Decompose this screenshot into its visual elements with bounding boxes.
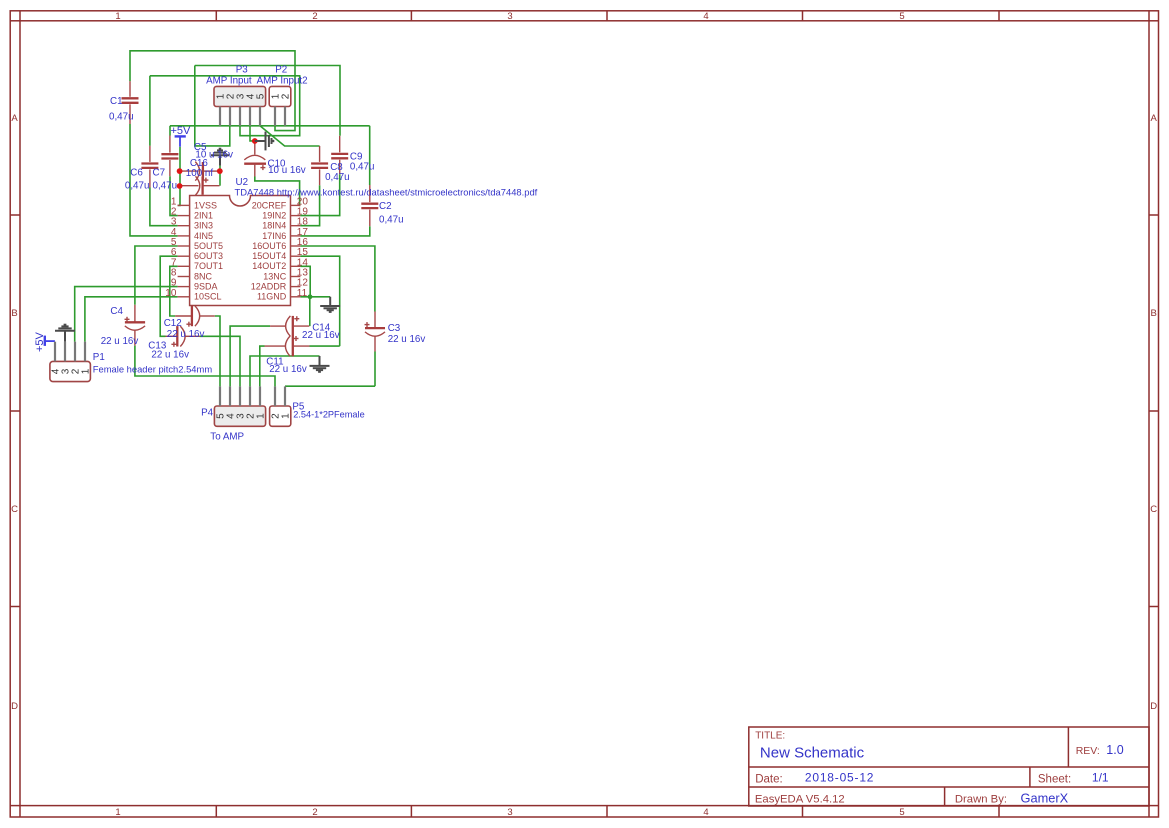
svg-text:B: B bbox=[11, 308, 17, 319]
U2 right pin stubs bbox=[291, 205, 301, 296]
titleblock group bbox=[749, 727, 1149, 806]
svg-text:2: 2 bbox=[281, 93, 292, 99]
capacitor C14 polarized horizontal bbox=[270, 316, 309, 336]
junction dot C5 left bbox=[177, 183, 183, 189]
wire U2 pin7 OUT1 to C12 left bbox=[170, 266, 178, 316]
svg-text:100 nf: 100 nf bbox=[186, 168, 214, 179]
svg-text:3: 3 bbox=[507, 11, 512, 22]
svg-text:15OUT4: 15OUT4 bbox=[252, 251, 286, 261]
svg-text:EasyEDA V5.4.12: EasyEDA V5.4.12 bbox=[755, 794, 845, 806]
svg-text:2: 2 bbox=[312, 807, 317, 818]
svg-text:11: 11 bbox=[297, 288, 308, 299]
wire net386 P5 pin1 to C3 bbox=[285, 385, 375, 387]
svg-text:TDA7448 http://www.kontest.ru/: TDA7448 http://www.kontest.ru/datasheet/… bbox=[235, 186, 538, 197]
left ruler tick B/C bbox=[10, 410, 20, 412]
junction dot C16 left bbox=[177, 168, 183, 174]
U2 left pin numbers bbox=[165, 196, 177, 298]
right ruler tick B/C bbox=[1149, 410, 1159, 412]
top ruler tick 1 bbox=[215, 11, 217, 21]
svg-text:0,47u: 0,47u bbox=[325, 172, 350, 183]
svg-text:P4: P4 bbox=[201, 407, 214, 418]
svg-text:22 u 16v: 22 u 16v bbox=[302, 330, 340, 341]
svg-text:9SDA: 9SDA bbox=[194, 282, 218, 292]
svg-text:C6: C6 bbox=[130, 168, 143, 179]
svg-text:C1: C1 bbox=[110, 96, 123, 107]
svg-text:3IN3: 3IN3 bbox=[194, 221, 213, 231]
svg-text:C: C bbox=[11, 504, 18, 515]
svg-text:4: 4 bbox=[703, 807, 708, 818]
bottom ruler tick 3 bbox=[606, 806, 608, 817]
svg-text:12ADDR: 12ADDR bbox=[251, 282, 287, 292]
wire U2 pin9 SDA to P1 pin2 bbox=[75, 287, 178, 342]
title block Sheet divider bbox=[1029, 767, 1031, 787]
svg-text:5: 5 bbox=[899, 807, 904, 818]
wire U2 pin14 OUT2 down bbox=[300, 266, 310, 297]
U2 right pin numbers bbox=[297, 196, 309, 298]
title block outline bbox=[749, 727, 1149, 806]
ground G3 at P1 pin3 bbox=[55, 325, 75, 342]
junction dot C10 top bbox=[252, 138, 258, 144]
wire C14 left to P4 pin4 bbox=[230, 326, 270, 386]
wire C6 bottom to U2 pin3 IN3 bbox=[150, 188, 178, 226]
title block REV divider bbox=[1067, 727, 1069, 767]
svg-text:C4: C4 bbox=[110, 306, 123, 317]
capacitor C16 horizontal bbox=[180, 162, 217, 181]
capacitor C2 bbox=[361, 185, 378, 226]
top ruler tick 2 bbox=[410, 11, 412, 21]
U2 right pin names bbox=[251, 200, 287, 301]
header P4 pin stubs bbox=[220, 386, 260, 406]
svg-text:1: 1 bbox=[256, 413, 267, 419]
svg-text:C3: C3 bbox=[388, 323, 401, 334]
top ruler tick 5 bbox=[998, 11, 1000, 21]
svg-text:5OUT5: 5OUT5 bbox=[194, 241, 223, 251]
ground G4 at U2 pin11 bbox=[320, 297, 340, 312]
wire C8 bottom to U2 pin18 IN4 bbox=[300, 185, 319, 226]
svg-text:20CREF: 20CREF bbox=[252, 200, 287, 210]
wire C2 bottom to U2 pin17 IN6 bbox=[300, 226, 369, 236]
U2 left pin stubs bbox=[178, 205, 190, 296]
svg-text:P2: P2 bbox=[275, 64, 287, 75]
wire P3 pin4 to C10 node bbox=[250, 126, 255, 141]
header P4 body bbox=[214, 406, 266, 426]
bottom ruler tick 2 bbox=[410, 806, 412, 817]
svg-text:22 u 16v: 22 u 16v bbox=[151, 350, 189, 361]
capacitor C3 polarized bbox=[365, 312, 386, 352]
ground G5 near C11 bbox=[310, 356, 330, 372]
wire C11 right bbox=[310, 345, 340, 347]
bottom ruler tick 5 bbox=[998, 806, 1000, 817]
capacitor C9 bbox=[331, 136, 348, 174]
wire C9 bottom to U2 pin19 IN2 bbox=[300, 174, 339, 215]
header P5 pin stubs bbox=[275, 386, 285, 406]
wire C3 bottom lead bbox=[374, 352, 376, 387]
wire C6 top lead bbox=[149, 76, 151, 146]
svg-text:22 u 16v: 22 u 16v bbox=[101, 336, 139, 347]
junction dot GND node pin11 bbox=[308, 294, 313, 299]
svg-text:3: 3 bbox=[507, 807, 512, 818]
header P1 body bbox=[50, 361, 92, 381]
svg-text:C12: C12 bbox=[164, 318, 182, 329]
wire C1 top to P2 pin1 loop bbox=[130, 51, 295, 131]
wire +5V rail to U2 pin1 VSS bbox=[178, 147, 180, 206]
svg-text:0,47u: 0,47u bbox=[350, 162, 375, 173]
wires group bbox=[75, 51, 375, 387]
title block row line 1 bbox=[749, 766, 1149, 768]
header P5 body bbox=[270, 406, 292, 426]
svg-text:2.54-1*2PFemale: 2.54-1*2PFemale bbox=[293, 409, 365, 419]
wire node75 C6 top rail bbox=[150, 76, 300, 136]
wire long IN1 net y126 bbox=[170, 125, 370, 127]
svg-text:C7: C7 bbox=[153, 168, 166, 179]
svg-text:10 u 16v: 10 u 16v bbox=[268, 165, 306, 176]
right ruler tick A/B bbox=[1149, 214, 1159, 216]
svg-text:22 u 16v: 22 u 16v bbox=[269, 364, 307, 375]
svg-text:22 u 16v: 22 u 16v bbox=[388, 334, 426, 345]
header P2 pin stubs bbox=[275, 107, 285, 126]
svg-text:7OUT1: 7OUT1 bbox=[194, 261, 223, 271]
svg-text:6OUT3: 6OUT3 bbox=[194, 251, 223, 261]
wire U2 pin16 OUT6 to C3 top bbox=[300, 246, 375, 312]
svg-text:TITLE:: TITLE: bbox=[755, 731, 785, 742]
bottom ruler tick 4 bbox=[802, 806, 804, 817]
svg-text:5: 5 bbox=[899, 11, 904, 22]
right ruler tick C/D bbox=[1149, 606, 1159, 608]
svg-text:4IN5: 4IN5 bbox=[194, 231, 213, 241]
svg-text:P1: P1 bbox=[93, 352, 105, 363]
U2 left pin names bbox=[194, 200, 223, 301]
svg-text:0,47u: 0,47u bbox=[125, 180, 150, 191]
svg-text:2IN1: 2IN1 bbox=[194, 211, 213, 221]
svg-text:New Schematic: New Schematic bbox=[760, 745, 865, 762]
svg-text:10SCL: 10SCL bbox=[194, 292, 222, 302]
svg-text:13NC: 13NC bbox=[263, 271, 287, 281]
title block DrawnBy divider bbox=[944, 787, 946, 806]
header P1 pin stubs bbox=[55, 342, 85, 362]
left ruler tick C/D bbox=[10, 606, 20, 608]
ground G2 right of C10 node bbox=[255, 132, 273, 151]
svg-text:2: 2 bbox=[312, 11, 317, 22]
wire C10 bottom to U2 pin20 CREF bbox=[255, 177, 301, 206]
capacitor C10 polarized bbox=[244, 141, 266, 177]
+5V symbol top bbox=[171, 125, 192, 147]
svg-text:AMP Input2: AMP Input2 bbox=[257, 76, 308, 87]
wire C4 bottom to P5 pin2 bbox=[135, 346, 275, 387]
header P3 body bbox=[214, 86, 267, 106]
svg-text:22 u 16v: 22 u 16v bbox=[167, 329, 205, 340]
wire U2 pin15 OUT4 down bbox=[300, 256, 339, 346]
ground G1 above C16 bbox=[211, 149, 229, 166]
svg-text:16OUT6: 16OUT6 bbox=[252, 241, 286, 251]
svg-text:0,47u: 0,47u bbox=[379, 215, 404, 226]
svg-text:P3: P3 bbox=[236, 64, 249, 75]
svg-text:17IN6: 17IN6 bbox=[262, 231, 286, 241]
svg-text:1: 1 bbox=[115, 11, 120, 22]
svg-text:0,47u: 0,47u bbox=[153, 180, 178, 191]
op-amp U2 IC body TDA7448 bbox=[190, 196, 291, 306]
header P2 body bbox=[269, 86, 291, 106]
wire U2 pin5 OUT5 to C4 top bbox=[135, 246, 178, 305]
wire C11 left to P4 pin1 bbox=[260, 346, 265, 386]
capacitor C5 polarized horizontal bbox=[180, 176, 220, 195]
capacitor C11 polarized horizontal bbox=[265, 336, 310, 356]
svg-text:GamerX: GamerX bbox=[1021, 790, 1069, 805]
header P3 pin stubs bbox=[220, 107, 260, 126]
wire P4 pin2 to ground bbox=[250, 356, 320, 386]
svg-text:Date:: Date: bbox=[755, 773, 783, 785]
frame corner joins bbox=[10, 20, 20, 22]
svg-text:19IN2: 19IN2 bbox=[262, 211, 286, 221]
svg-text:D: D bbox=[11, 701, 18, 712]
components group bbox=[34, 81, 385, 426]
svg-text:2018-05-12: 2018-05-12 bbox=[805, 771, 874, 785]
capacitor C4 polarized bbox=[125, 305, 146, 346]
wire P3 pin5 diagonal to C8 bbox=[260, 126, 320, 146]
svg-text:AMP Input: AMP Input bbox=[206, 76, 252, 87]
svg-text:10: 10 bbox=[165, 288, 177, 299]
svg-text:18IN4: 18IN4 bbox=[262, 221, 286, 231]
svg-text:C2: C2 bbox=[379, 201, 392, 212]
+5V symbol left at P1 pin4 bbox=[34, 331, 55, 352]
svg-text:B: B bbox=[1151, 308, 1157, 319]
wire C2 top lead bbox=[369, 126, 371, 185]
top ruler tick 3 bbox=[606, 11, 608, 21]
svg-text:A: A bbox=[11, 113, 18, 124]
svg-text:5: 5 bbox=[256, 93, 267, 99]
junction dot C16 right bbox=[217, 168, 223, 174]
wire U2 pin10 SCL to P1 pin1 bbox=[85, 297, 178, 342]
title block row line 2 bbox=[749, 786, 1149, 788]
capacitor C8 bbox=[311, 146, 328, 185]
svg-text:1: 1 bbox=[81, 368, 92, 374]
svg-text:REV:: REV: bbox=[1076, 745, 1100, 757]
labels group bbox=[93, 64, 538, 442]
capacitor C1 bbox=[122, 81, 139, 124]
svg-text:To AMP: To AMP bbox=[210, 431, 244, 442]
svg-text:4: 4 bbox=[703, 11, 708, 22]
wire node65 to P3 pin2 bbox=[195, 66, 230, 146]
svg-text:8NC: 8NC bbox=[194, 271, 213, 281]
svg-text:11GND: 11GND bbox=[257, 292, 287, 302]
svg-text:Sheet:: Sheet: bbox=[1038, 773, 1071, 785]
wire C14 right up to GND node bbox=[309, 297, 311, 326]
top ruler tick 4 bbox=[802, 11, 804, 21]
wire gnd stub x220 to caps bbox=[219, 166, 221, 186]
svg-text:1VSS: 1VSS bbox=[194, 200, 217, 210]
capacitor C6 bbox=[141, 146, 158, 188]
svg-text:C: C bbox=[1150, 504, 1157, 515]
svg-text:1/1: 1/1 bbox=[1092, 770, 1109, 784]
capacitor C13 polarized horizontal bbox=[166, 326, 200, 347]
bottom ruler tick 1 bbox=[215, 806, 217, 817]
wire C12 right to P4 pin5 bbox=[215, 316, 220, 386]
svg-text:1: 1 bbox=[281, 413, 292, 419]
svg-text:0,47u: 0,47u bbox=[109, 112, 134, 123]
wire C7 top stub bbox=[169, 126, 171, 136]
svg-text:D: D bbox=[1150, 701, 1157, 712]
wire node65 C9 branch bbox=[195, 66, 340, 136]
wire C1 bottom to U2 pin4 IN5 bbox=[130, 124, 178, 236]
wire C7 bottom to U2 pin2 IN1 bbox=[170, 176, 178, 215]
left ruler tick A/B bbox=[10, 214, 20, 216]
capacitor C7 bbox=[161, 136, 178, 177]
svg-text:1.0: 1.0 bbox=[1106, 743, 1123, 757]
capacitor C12 polarized horizontal bbox=[175, 306, 215, 327]
svg-text:A: A bbox=[1151, 113, 1158, 124]
svg-text:1: 1 bbox=[115, 807, 120, 818]
svg-text:Female header pitch2.54mm: Female header pitch2.54mm bbox=[93, 364, 213, 375]
wire C13 right to P4 pin3 bbox=[200, 336, 240, 386]
wire U2 pin6 OUT3 to C13 left bbox=[160, 256, 177, 336]
wire U2 pin11 GND to ground bbox=[300, 296, 330, 298]
svg-text:Drawn By:: Drawn By: bbox=[955, 794, 1007, 806]
svg-text:14OUT2: 14OUT2 bbox=[252, 261, 286, 271]
